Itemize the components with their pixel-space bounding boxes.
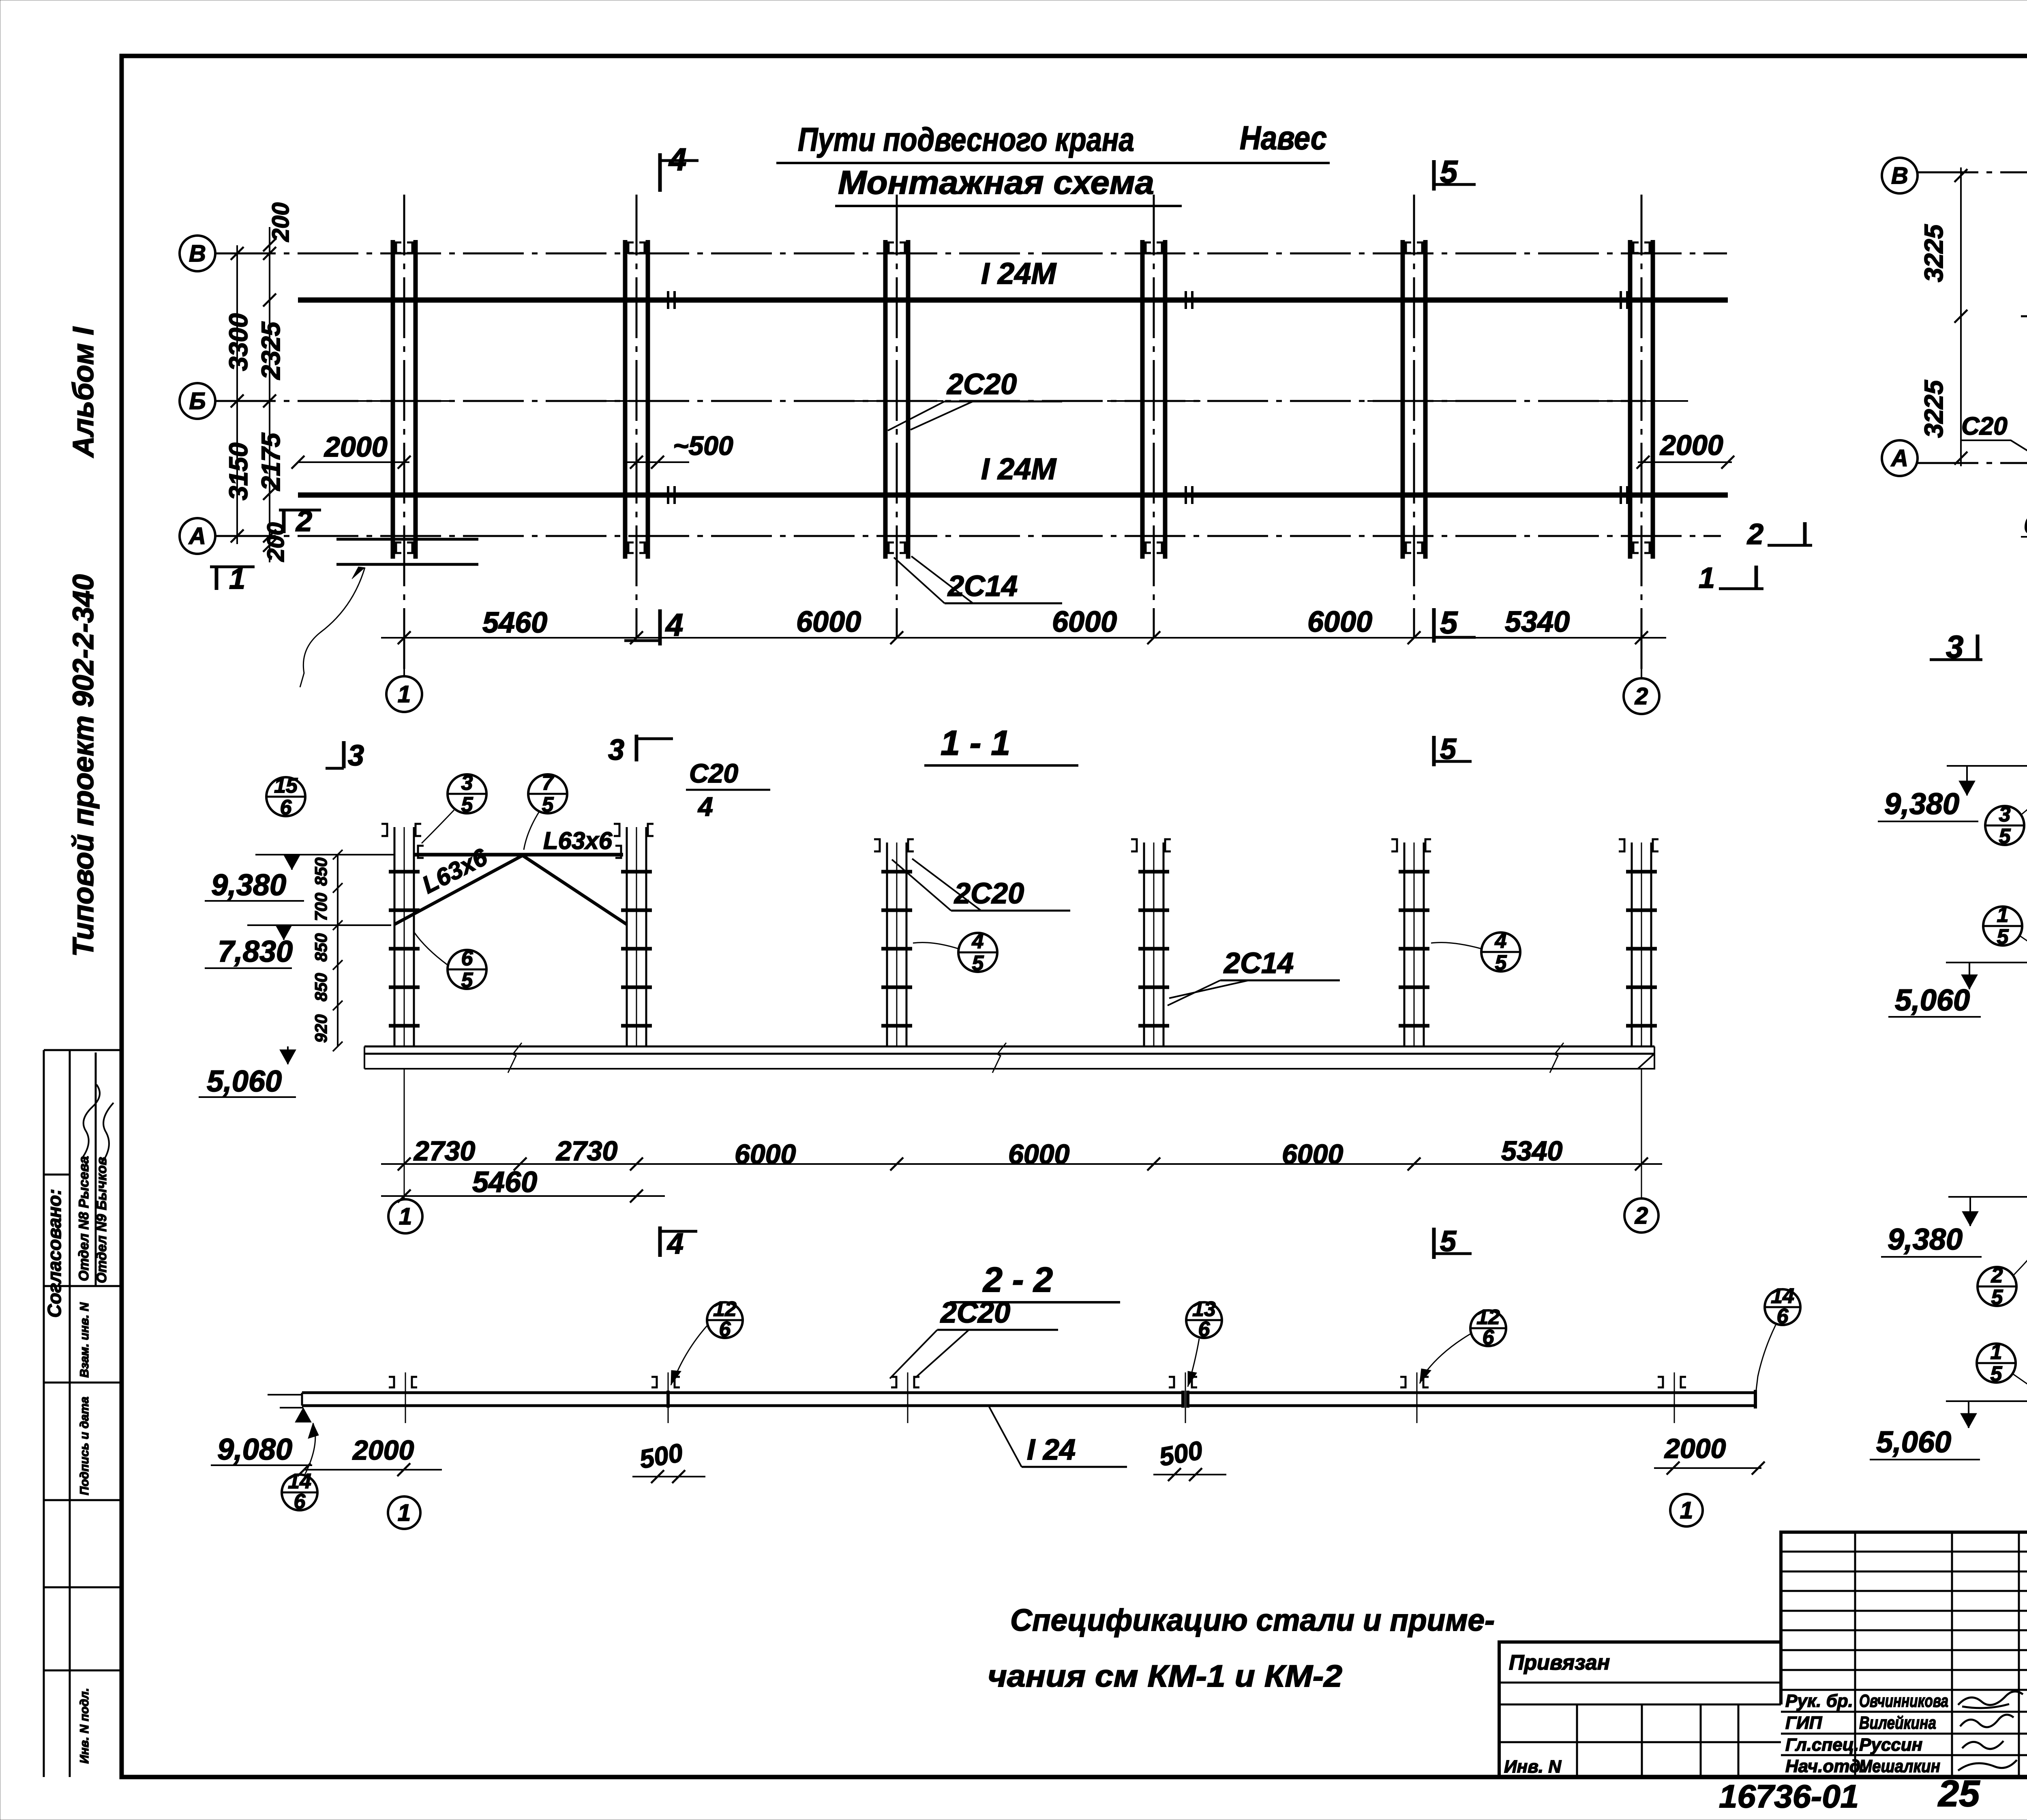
svg-text:Пути подвесного крана: Пути подвесного крана [798, 121, 1134, 158]
svg-text:4: 4 [666, 1228, 684, 1260]
svg-text:L63x6: L63x6 [543, 827, 613, 854]
svg-text:2: 2 [1746, 518, 1763, 551]
svg-text:9,380: 9,380 [1884, 787, 1959, 821]
2-2 support mark 3 [891, 1372, 919, 1423]
svg-text:1: 1 [398, 1500, 411, 1526]
svg-text:Отдел N8 Рысева: Отдел N8 Рысева [76, 1156, 92, 1281]
1-1 axis circle 1 [404, 1069, 405, 1199]
title block grid: central signature table [1781, 1532, 2027, 1777]
svg-text:Инв. N: Инв. N [1504, 1757, 1562, 1777]
svg-text:5340: 5340 [1501, 1136, 1562, 1166]
title block: left lower grid [1499, 1704, 1781, 1777]
svg-text:685: 685 [2024, 510, 2027, 539]
callout circle 15/6 [266, 774, 305, 819]
leaders 2С20 [888, 401, 945, 431]
title block outer outline [1499, 1532, 2027, 1777]
signatures squiggles [1958, 1691, 2023, 1708]
svg-text:5460: 5460 [482, 607, 547, 639]
1-1 section mark 5 right top [1432, 736, 1436, 766]
3-3 axis circle А [1882, 440, 1918, 476]
axis circle В [180, 236, 215, 271]
svg-text:5,060: 5,060 [207, 1064, 282, 1098]
2-2 callout 14/6 right [1765, 1284, 1800, 1328]
svg-text:3: 3 [348, 740, 364, 772]
1-1 dim chain 2730/2730/6000x3/5340 [381, 1163, 1662, 1165]
svg-text:Гл.спец.: Гл.спец. [1785, 1735, 1859, 1755]
1-1 lattice column axis 2 [614, 824, 654, 1047]
svg-text:3225: 3225 [1919, 224, 1948, 282]
2-2 support mark 6 [1658, 1372, 1686, 1423]
svg-text:3: 3 [461, 771, 473, 795]
axis А line [215, 535, 1721, 537]
svg-text:700: 700 [311, 893, 330, 921]
svg-text:6: 6 [461, 947, 474, 970]
svg-text:9,380: 9,380 [211, 868, 286, 902]
svg-text:Нач.отд.: Нач.отд. [1785, 1756, 1865, 1776]
sidebar signatures [81, 1085, 100, 1160]
plan column axis 4 [1142, 195, 1165, 638]
svg-text:5: 5 [1440, 733, 1457, 765]
section mark 5 top [1432, 160, 1436, 191]
1-1 lattice column axis 3 [874, 839, 914, 1047]
svg-text:2000: 2000 [324, 431, 388, 463]
svg-text:5: 5 [542, 793, 554, 817]
svg-text:Вилейкина: Вилейкина [1859, 1713, 1936, 1733]
2-2 callout 14/6 left [282, 1470, 317, 1513]
svg-text:4: 4 [1495, 929, 1507, 953]
svg-text:Взам. инв. N: Взам. инв. N [78, 1302, 91, 1378]
svg-text:3: 3 [1946, 629, 1963, 665]
2-2 support mark 2 [651, 1372, 680, 1423]
3-3 axis circle В [1882, 158, 1918, 193]
svg-text:850: 850 [311, 973, 330, 1001]
3-3 vertical dim chain 3225/3225 [1960, 167, 1962, 466]
1-1 callout 3/5 [448, 771, 486, 817]
section mark 2 right [1768, 544, 1812, 547]
svg-text:5460: 5460 [472, 1166, 537, 1198]
svg-text:5: 5 [1991, 1362, 2003, 1386]
svg-text:Монтажная схема: Монтажная схема [838, 164, 1154, 201]
svg-text:Б: Б [189, 388, 206, 414]
svg-text:2000: 2000 [1659, 429, 1723, 461]
svg-text:6: 6 [719, 1318, 731, 1341]
title block: left part Привязан [1499, 1682, 1781, 1684]
3-3 axis В dash line [1918, 171, 2027, 174]
axis circle Б [180, 383, 215, 419]
5-5 callout 2/5 [1978, 1264, 2016, 1309]
svg-text:4: 4 [972, 930, 984, 953]
2-2 support mark 4 [1169, 1372, 1197, 1423]
left vertical dim chain 3300/3150 [236, 245, 238, 544]
svg-text:1: 1 [1699, 562, 1715, 594]
2-2 axis circle 1 left [388, 1496, 420, 1529]
svg-text:5: 5 [461, 969, 474, 992]
leaders 2С14 [894, 557, 945, 603]
svg-text:5: 5 [1440, 605, 1458, 640]
1-1 callout 4/5 at axis 3 [958, 930, 997, 975]
svg-text:6000: 6000 [1052, 606, 1117, 638]
section mark 4 bottom (plan) [658, 609, 662, 645]
left sidebar stamp table [44, 1050, 122, 1777]
svg-text:Овчинникова: Овчинникова [1859, 1691, 1948, 1711]
svg-text:А: А [188, 523, 206, 549]
svg-text:5: 5 [1991, 1286, 2003, 1309]
svg-text:I 24М: I 24М [981, 452, 1056, 486]
1-1 section mark 3 right [635, 735, 639, 761]
svg-text:16736-01: 16736-01 [1719, 1778, 1859, 1814]
1-1 lattice column axis 4 [1131, 839, 1171, 1047]
left vertical dim chain 200/2325/2175/200 [269, 227, 270, 562]
1-1 section mark 3 left [326, 767, 344, 770]
svg-text:Альбом I: Альбом I [67, 326, 100, 458]
1-1 callout 4/5 at axis 5 [1481, 929, 1520, 975]
1-1 lattice column axis 6 [1619, 839, 1658, 1047]
svg-text:3: 3 [608, 734, 624, 766]
1-1 foundation beam [364, 1046, 1654, 1048]
3-3 axis А dash line [1918, 462, 2027, 464]
svg-text:6000: 6000 [1282, 1139, 1343, 1170]
svg-text:5: 5 [1999, 825, 2011, 848]
1-1 dim 5460 [381, 1195, 665, 1197]
svg-text:9,380: 9,380 [1888, 1222, 1963, 1256]
svg-text:С20: С20 [1961, 412, 2008, 440]
2-2 support mark 1 [389, 1372, 417, 1423]
svg-text:6000: 6000 [796, 606, 861, 638]
svg-text:2С20: 2С20 [954, 877, 1024, 910]
2-2 callout 12/6 [707, 1297, 743, 1341]
leader to callout 15/6 [300, 568, 365, 687]
4-4 callout 3/5 [1985, 803, 2024, 848]
svg-text:200: 200 [268, 202, 294, 242]
svg-text:I 24: I 24 [1027, 1434, 1076, 1466]
1-1 section mark 5 bottom [1432, 1228, 1436, 1259]
beam splice marks [667, 291, 669, 309]
svg-text:5: 5 [1997, 925, 2009, 949]
crane beam И24М lower [298, 493, 1728, 498]
svg-text:3300: 3300 [224, 313, 253, 371]
1-1 lattice column axis 5 [1391, 839, 1431, 1047]
4-4 section mark 3 left [1930, 658, 1982, 661]
section mark 2 left [279, 509, 321, 512]
svg-text:2325: 2325 [256, 321, 285, 380]
1-1 callout 7/5 [528, 771, 567, 817]
svg-text:2000: 2000 [1664, 1433, 1726, 1464]
svg-text:2000: 2000 [352, 1435, 414, 1466]
3-3 mid dash-dot line [2021, 315, 2027, 317]
svg-text:Типовой проект 902-2-340: Типовой проект 902-2-340 [67, 574, 100, 957]
svg-text:7,830: 7,830 [218, 935, 293, 968]
plan axis circle 2 [1641, 638, 1642, 678]
svg-text:Согласовано:: Согласовано: [44, 1189, 65, 1318]
svg-text:6: 6 [280, 796, 292, 819]
svg-text:1: 1 [1991, 1340, 2002, 1364]
svg-text:7: 7 [542, 771, 555, 795]
svg-text:1: 1 [399, 1203, 412, 1230]
svg-text:3: 3 [1999, 803, 2011, 826]
svg-text:2С20: 2С20 [946, 368, 1017, 401]
svg-text:3225: 3225 [1919, 379, 1948, 438]
1-1 section mark 4 bottom [658, 1226, 662, 1257]
svg-text:I 24М: I 24М [981, 257, 1056, 290]
svg-text:1 - 1: 1 - 1 [941, 724, 1010, 763]
svg-text:1: 1 [1680, 1497, 1693, 1524]
svg-text:850: 850 [311, 933, 330, 962]
svg-text:4: 4 [665, 607, 683, 643]
svg-text:Привязан: Привязан [1509, 1651, 1610, 1674]
plan column axis 3 [885, 195, 908, 638]
svg-text:Руссин: Руссин [1859, 1735, 1922, 1755]
svg-text:15: 15 [274, 774, 298, 797]
svg-text:2175: 2175 [256, 432, 285, 491]
svg-text:5: 5 [461, 793, 474, 817]
svg-text:2: 2 [295, 505, 312, 538]
svg-text:В: В [189, 240, 206, 267]
section mark 1 left [210, 566, 255, 568]
svg-text:4: 4 [697, 791, 713, 821]
svg-text:5: 5 [1495, 951, 1507, 975]
plan column axis 2 [625, 195, 648, 638]
1-1 axis circle 2 [1641, 1069, 1642, 1198]
svg-text:25: 25 [1937, 1773, 1980, 1814]
axis В line [215, 253, 1727, 255]
svg-text:9,080: 9,080 [217, 1432, 292, 1466]
svg-text:500: 500 [637, 1438, 685, 1474]
svg-text:Мешалкин: Мешалкин [1859, 1756, 1940, 1776]
svg-text:4: 4 [668, 141, 686, 177]
svg-text:1: 1 [1997, 903, 2009, 927]
svg-text:6: 6 [1777, 1305, 1789, 1328]
svg-text:А: А [1890, 445, 1908, 472]
svg-text:1: 1 [398, 681, 411, 707]
svg-text:2С14: 2С14 [1223, 947, 1294, 980]
plan column axis 5 [1403, 195, 1425, 638]
2-2 crane beam band [302, 1391, 1183, 1394]
svg-text:Рук. бр.: Рук. бр. [1785, 1691, 1853, 1711]
column 1 bottom connection plates [336, 538, 478, 541]
section mark 1 right [1719, 587, 1763, 590]
svg-text:920: 920 [311, 1014, 330, 1043]
section mark 4 top [658, 153, 662, 192]
svg-text:5340: 5340 [1505, 606, 1570, 638]
svg-text:850: 850 [311, 857, 330, 886]
svg-text:6000: 6000 [1008, 1139, 1069, 1170]
3-3 bottom dim chain 685/1790/1880/1790/685 [2021, 536, 2027, 538]
svg-text:2 - 2: 2 - 2 [982, 1260, 1053, 1299]
svg-text:6: 6 [1198, 1318, 1211, 1341]
svg-text:2: 2 [1635, 1203, 1648, 1229]
svg-text:2: 2 [1991, 1264, 2003, 1287]
svg-text:5,060: 5,060 [1895, 983, 1970, 1017]
svg-text:3150: 3150 [224, 443, 253, 500]
1-1 small level dim chain [337, 855, 339, 1046]
svg-text:С20: С20 [689, 758, 738, 788]
svg-text:2С14: 2С14 [947, 570, 1018, 602]
svg-text:2730: 2730 [413, 1136, 475, 1166]
axis circle А [180, 518, 215, 554]
svg-text:6000: 6000 [1307, 606, 1372, 638]
axis Б segments through columns [358, 400, 451, 402]
svg-text:2730: 2730 [555, 1136, 617, 1166]
2-2 support mark 5 [1400, 1372, 1429, 1423]
svg-text:1: 1 [229, 563, 245, 595]
svg-text:В: В [1891, 163, 1908, 189]
2-2 callout 13/6 [1186, 1297, 1222, 1341]
svg-text:чания см КМ-1 и КМ-2: чания см КМ-1 и КМ-2 [988, 1659, 1342, 1694]
svg-text:5: 5 [1440, 154, 1458, 189]
svg-text:ГИП: ГИП [1785, 1713, 1823, 1733]
1-1 truss top chord [414, 853, 623, 857]
1-1 lattice column axis 1 [381, 824, 421, 1047]
svg-text:6: 6 [294, 1490, 306, 1513]
plan bottom dimension chain [381, 637, 1666, 639]
svg-text:5: 5 [1440, 1225, 1457, 1258]
2-2 callout 12/6 right [1470, 1306, 1506, 1349]
svg-text:2: 2 [1635, 683, 1648, 710]
svg-text:2С20: 2С20 [940, 1297, 1010, 1329]
plan column axis 1 [393, 195, 416, 675]
svg-text:Подпись и дата: Подпись и дата [78, 1397, 91, 1495]
svg-text:500: 500 [1157, 1435, 1205, 1471]
5-5 callout 1/5 [1977, 1340, 2016, 1386]
svg-text:Отдел N9 Бычков: Отдел N9 Бычков [94, 1157, 109, 1283]
4-4 callout 1/5 [1983, 903, 2022, 949]
1-1 truss diagonals L63x6 [394, 855, 523, 924]
svg-text:5: 5 [972, 952, 984, 975]
crane beam И24М upper [298, 298, 1728, 303]
svg-text:6: 6 [1483, 1326, 1495, 1349]
2-2 axis circle 1 right [1670, 1494, 1703, 1526]
svg-text:6000: 6000 [735, 1139, 796, 1170]
plan column axis 6 [1630, 195, 1653, 675]
svg-text:Навес: Навес [1240, 120, 1327, 156]
plan axis circle 1 [403, 638, 405, 676]
svg-text:5,060: 5,060 [1876, 1425, 1951, 1459]
svg-text:Инв. N подл.: Инв. N подл. [78, 1688, 91, 1764]
1-1 callout 6/5 [448, 947, 486, 992]
svg-text:~500: ~500 [673, 431, 733, 461]
beam break marks [508, 1043, 522, 1073]
axis Б line [215, 400, 1646, 402]
svg-text:Спецификацию стали и приме-: Спецификацию стали и приме- [1010, 1603, 1495, 1638]
section mark 5 bottom (plan) [1432, 608, 1436, 643]
